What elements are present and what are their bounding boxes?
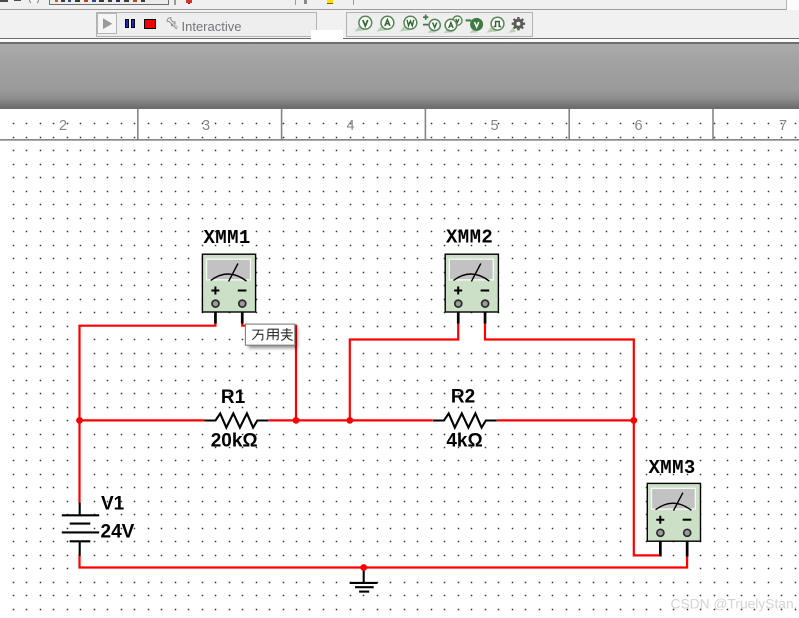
svg-text:24V: 24V <box>101 522 135 543</box>
svg-text:XMM1: XMM1 <box>204 227 251 249</box>
ground <box>350 569 378 592</box>
svg-text:XMM2: XMM2 <box>446 227 493 249</box>
digital probe icon <box>487 17 504 32</box>
svg-text:20kΩ: 20kΩ <box>211 431 258 452</box>
grid dots <box>13 123 797 611</box>
wire: XMM1 minus lead to node under tooltip <box>242 321 296 420</box>
wire: XMM2 minus lead to right node <box>485 321 634 420</box>
multimeter XMM1 <box>202 254 255 323</box>
battery V1 <box>62 503 99 556</box>
wire: right node down to XMM3 plus <box>634 420 661 555</box>
svg-text:R1: R1 <box>221 387 246 408</box>
svg-text:4kΩ: 4kΩ <box>446 431 482 452</box>
junction node right rail <box>630 417 637 424</box>
svg-text:3: 3 <box>202 118 210 134</box>
svg-text:5: 5 <box>490 118 498 134</box>
svg-text:6: 6 <box>634 118 642 134</box>
multimeter XMM2 <box>445 254 498 323</box>
svg-text:4: 4 <box>346 118 354 134</box>
glyph yong <box>267 329 279 340</box>
probe settings gear icon <box>509 17 526 33</box>
svg-text:XMM3: XMM3 <box>649 457 696 479</box>
resistor R2 <box>433 413 497 427</box>
wire: main resistor row <box>80 419 634 421</box>
group 1: run/pause/stop + Interactive <box>96 12 317 37</box>
wire: XMM1 plus lead down-left to left rail <box>80 321 216 503</box>
current probe icon <box>377 16 394 31</box>
junction node XMM2 plus <box>346 417 353 424</box>
wire: XMM2 plus lead to main row <box>350 321 458 420</box>
junction node ground <box>360 564 367 571</box>
power probe icon <box>400 16 417 31</box>
svg-text:V1: V1 <box>101 494 125 515</box>
junction node XMM1 minus <box>293 417 300 424</box>
glyph biao <box>281 328 293 341</box>
tooltip 万用表 <box>245 324 294 345</box>
svg-text:2: 2 <box>59 118 67 134</box>
multimeter XMM3 <box>647 483 700 556</box>
junction node at left rail <box>76 417 83 424</box>
voltage reference probe icon <box>466 19 483 33</box>
sheet border dividers and numbers <box>0 109 799 140</box>
resistor R1 <box>205 413 269 427</box>
wire: left rail bottom from battery to bottom rail <box>80 555 688 568</box>
voltage and current probe icon <box>444 16 462 33</box>
voltage probe icon <box>355 16 372 31</box>
glyph wan <box>252 330 263 340</box>
svg-text:7: 7 <box>779 118 787 134</box>
white notch between toolbar groups <box>311 30 344 40</box>
svg-text:R2: R2 <box>451 386 475 407</box>
group 2: probe icons <box>346 12 533 37</box>
svg-text:CSDN @TruelyStan.: CSDN @TruelyStan. <box>671 597 798 612</box>
differential voltage probe icon <box>423 15 440 34</box>
